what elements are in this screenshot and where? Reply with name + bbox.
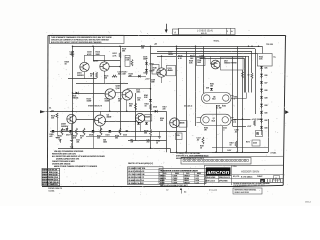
svg-text:C123: C123 [253,143,257,145]
title block fields row2 scale [218,176,220,183]
svg-text:R165: R165 [222,106,226,108]
svg-text:MAKE OTHER CHANGE SCHEMATIC TO: MAKE OTHER CHANGE SCHEMATIC TO BOARDS [54,165,98,168]
svg-text:150W: 150W [87,101,92,103]
svg-text:40409: 40409 [107,117,112,119]
svg-text:D110: D110 [153,107,157,109]
svg-text:Z-12: Z-12 [196,182,199,184]
svg-text:NEW: NEW [197,173,201,175]
svg-text:C1027: C1027 [173,180,178,182]
wire output stage links [231,98,247,100]
svg-text:D-14: D-14 [196,180,200,182]
svg-text:Q103: Q103 [94,61,99,63]
ground input [57,118,59,137]
diode string D125 [261,66,263,135]
svg-text:1N914: 1N914 [184,180,189,182]
svg-text:L-O-BUS (5)-A): L-O-BUS (5)-A) [197,30,213,33]
svg-text:390: 390 [129,106,132,108]
diode D117 [69,130,72,133]
svg-text:A4: A4 [184,191,186,194]
predriver column diodes [210,88,213,91]
resistor R151 [135,103,137,110]
wire vertical x=166.3 [166,111,168,152]
diode D119 [92,130,95,133]
svg-text:2: 2 [227,31,228,33]
wire vertical x=232.5 [232,57,234,127]
svg-text:D33: D33 [265,128,268,130]
svg-text:2N3391: 2N3391 [61,126,68,128]
svg-text:C9 .56MFD 100V 10%: C9 .56MFD 100V 10% [128,168,145,170]
junction dots bottom row [92,131,94,133]
transistor diode conversion chart [159,169,206,184]
diode D103 on feed [76,92,79,95]
svg-text:D4 1N4004 1A 400V: D4 1N4004 1A 400V [128,182,144,185]
wire y=147.5 right [212,147,268,149]
title block outline [204,164,283,166]
revision strip [179,28,236,34]
transistor Q103 [100,62,109,71]
svg-text:40410: 40410 [160,182,165,184]
svg-text:150W: 150W [105,101,110,103]
svg-text:TITLE: TITLE [233,166,237,168]
svg-text:DWN PJH 6-73: DWN PJH 6-73 [219,177,230,179]
svg-text:20W: 20W [151,82,155,84]
svg-text:B 170 1406-5: B 170 1406-5 [241,177,252,179]
svg-text:60-8: 60-8 [212,120,215,122]
wire y=83.5 [76,83,128,85]
stamp box reprint [233,188,262,194]
svg-text:40409: 40409 [168,70,173,72]
svg-text:A: A [174,30,176,34]
svg-text:SHUNT SELECTS: SHUNT SELECTS [88,106,103,108]
revision boxes row [260,179,265,183]
svg-text:0.1 5W: 0.1 5W [216,108,222,110]
relay K101 box [167,65,176,76]
svg-text:C1: C1 [49,108,51,110]
transistor Q113 predriver [135,113,144,122]
wire output y=126 [233,126,247,128]
svg-text:TO1 D30: TO1 D30 [266,44,273,46]
svg-text:1W: 1W [131,142,134,144]
wire vertical x=120 [120,46,122,131]
revision marker arrow [166,24,168,30]
wire vertical x=222 [222,126,224,152]
resistor R145 [83,128,85,135]
svg-text:D+: D+ [274,57,276,59]
capacitor C109 [71,124,73,132]
wire first stage emitter y=60 [93,60,120,62]
svg-text:D33: D33 [256,132,259,134]
svg-text:6-13-73: 6-13-73 [201,33,207,35]
wire vertical x=237 [237,46,239,152]
wire bus drop x=248.8 [248,56,250,92]
box Q113 spec [145,115,152,122]
ground symbol mid [159,131,161,136]
transistor Q109 input [67,114,76,123]
diode D125 in string [260,66,263,69]
svg-text:40409: 40409 [145,116,150,118]
wire vertical x=176.5 [176,46,178,152]
wire Q111 collector [161,56,163,68]
svg-text:D26: D26 [265,75,268,77]
resistor R101 input shunt [56,113,58,118]
wire vertical feed x=72.5 [72,46,74,148]
svg-text:D27: D27 [265,83,268,85]
svg-text:.047 2.2M: .047 2.2M [118,74,126,76]
svg-text:10: 10 [248,75,250,77]
svg-text:.1: .1 [223,130,224,132]
diode D105 [145,62,148,65]
svg-text:TRANSISTOR & DIODE CONVERSION: TRANSISTOR & DIODE CONVERSION CHART [160,169,199,172]
svg-text:10: 10 [200,148,202,150]
component box C115 [176,133,183,140]
svg-text:45.5 (45.1): 45.5 (45.1) [184,106,193,108]
parts table left [42,168,60,185]
svg-text:150: 150 [104,78,107,80]
wire vertical x=203 [203,46,205,93]
resistor R111 [131,60,133,67]
wire output y=119 [233,119,251,121]
svg-text:10: 10 [156,143,158,145]
svg-text:P-3-A R: P-3-A R [209,189,217,192]
svg-text:60-8: 60-8 [212,99,215,101]
svg-text:560: 560 [144,133,147,135]
wire stub x=93 bottom [93,131,95,148]
relay box K1 [197,58,206,66]
wire diode pair [146,60,148,75]
wire strip top line [181,156,283,157]
wire vertical x=186 [186,51,188,152]
svg-text:D101: D101 [144,73,148,75]
svg-text:R3 4.7K 1/2W 5% CF: R3 4.7K 1/2W 5% CF [128,171,144,173]
svg-text:+15V: +15V [145,79,150,81]
svg-text:2N3055 THERM: 2N3055 THERM [224,63,237,65]
output device Q121 stadium [201,114,232,125]
bottom right box [252,140,260,146]
diode D141 in string [260,126,263,129]
svg-text:100P: 100P [197,62,201,64]
svg-text:10: 10 [230,145,232,147]
resistor R167b [235,141,237,147]
wire Q107 collector to x150 [127,88,151,90]
svg-text:40409: 40409 [160,180,165,182]
diode D115 [52,130,55,133]
svg-text:R140: R140 [153,68,157,70]
svg-text:D-150A: D-150A [49,189,56,192]
svg-text:PARTS LIST # A-D-(436)-Q-Q: PARTS LIST # A-D-(436)-Q-Q [128,162,154,165]
wire Q113 tie [140,123,142,132]
wire bottom rail y=148.3 [58,148,170,150]
svg-text:D117: D117 [66,135,70,137]
resistor R141 [61,128,63,135]
svg-text:TO D.C.: TO D.C. [214,41,220,43]
svg-text:R171: R171 [246,142,250,144]
svg-text:220: 220 [160,120,163,122]
svg-text:amcron: amcron [207,170,230,176]
wire Q105-Q107 bases [115,92,122,94]
svg-text:ADDER SKIN: ADDER SKIN [241,170,259,174]
wire vertical x=216 [216,105,218,152]
wire bus drop x=245.7 [245,56,247,92]
resistor R151 [242,72,244,79]
svg-text:NEW: NEW [175,173,179,175]
wire bus line 2 [177,48,256,50]
svg-text:1N4004: 1N4004 [72,98,78,100]
resistor R167 [202,137,204,144]
svg-text:d150a-2: d150a-2 [305,202,311,204]
junction dots mid [72,111,74,113]
diode D110 [155,110,158,113]
ground bottom left [60,139,62,143]
resistor R149 [119,128,121,135]
transistor Q111 driver [157,68,166,77]
wire row y=140.8 [128,140,166,142]
svg-text:C109: C109 [197,60,201,62]
wire bus line 5 [157,56,249,58]
wire bus drop x=255 [255,49,257,114]
wire bottom rail y=152.2 [170,148,172,152]
svg-text:60-8 OUT PAIR PR1: 60-8 OUT PAIR PR1 [42,183,57,186]
wire y=136.9 [86,136,160,138]
svg-text:2N3391: 2N3391 [77,75,84,77]
svg-text:.05: .05 [235,132,237,134]
svg-text:D31: D31 [265,113,268,115]
pot box R140 [152,65,159,75]
svg-text:-V RAIL: -V RAIL [270,151,276,154]
diode D127 in string [260,74,263,77]
wire bias box feed [210,63,218,65]
wire base line y=66.5 [109,66,120,68]
wire Q110 emitter [100,126,102,131]
svg-text:D29: D29 [265,98,268,100]
diode D129 in string [260,81,263,84]
amcron logo [206,167,231,175]
wire y=119.5 [77,119,96,121]
diode D101 [138,75,141,78]
wire bus line 3 [157,51,252,53]
svg-text:1W: 1W [204,130,207,132]
revision block A [173,29,179,35]
svg-text:C115: C115 [176,135,180,137]
resistor R117 pullup [119,52,121,58]
svg-text:1400: 1400 [103,142,107,144]
diode D109 [67,126,69,128]
thermal box D33 [256,131,263,137]
wire vertical x=242.5 [242,70,244,152]
transistor Q115 [170,118,180,128]
svg-text:100: 100 [210,86,213,88]
svg-text:D121: D121 [106,135,110,137]
diode D111 [137,122,140,125]
svg-text:220: 220 [163,109,166,111]
wire Q101-Q103 coupling [84,55,86,62]
wire y=121.5 segment [104,121,136,123]
diode D139 in string [260,119,263,122]
wire bottom component row y=131.3 [50,131,186,133]
resistor R153 [251,73,253,79]
arrow marker right border [285,110,289,114]
svg-text:C1028: C1028 [173,182,178,184]
wire bus line 4 [151,53,258,55]
wire Q110 collector [100,111,102,115]
svg-text:C25: C25 [256,134,259,136]
transistor Q117 bias sensor [211,60,220,69]
wire Q107 down [126,100,128,112]
wire bus drop x=244.7 [244,59,246,93]
pointer arrow bottom [181,190,183,194]
wire rail to zener box [262,46,264,53]
diode D113 [145,122,148,125]
oval stub wires [197,117,202,119]
capacitor C113 [126,130,129,132]
svg-text:1N4742: 1N4742 [184,182,190,184]
resistor R143 [76,128,78,135]
diode D133 in string [260,96,263,99]
diode D131 in string [260,89,263,92]
transistor Q107 [122,90,132,100]
resistor R153 [150,104,152,110]
svg-text:Q107: Q107 [116,88,121,90]
diode D137 in string [260,111,263,114]
resistor R139 [150,129,152,136]
svg-text:+45: +45 [154,44,157,46]
wire diode feed y=93 [73,93,105,95]
svg-text:BULLETIN FOR LATEST CIRCUIT RE: BULLETIN FOR LATEST CIRCUIT REVISIONS AN… [51,41,102,44]
resistor R125 feedback [112,75,117,77]
transistor Q105 [105,89,115,99]
svg-text:D19: D19 [206,88,209,90]
wire vertical x=195.5 [195,46,197,126]
svg-text:.0015: .0015 [136,92,140,94]
wire bus line 6 [200,58,245,60]
bias network box [221,57,244,70]
wire bottom right gnd rail [212,152,268,154]
svg-text:.001: .001 [137,100,140,102]
resistor R102 on +V feed [72,51,74,57]
wire y=78.7 [68,78,97,80]
svg-text:40636: 40636 [180,122,185,124]
svg-text:.05: .05 [197,140,200,142]
svg-text:.0033: .0033 [168,54,173,56]
wire Q103 emitter down [104,71,106,83]
wire vertical x=135.5 [135,93,137,141]
wire bus drop x=251.9 [251,51,253,73]
resistor R121 [96,72,98,78]
wire rail y=111.3 [50,111,166,113]
svg-text:.001: .001 [76,142,79,144]
diode D135 in string [260,104,263,107]
svg-text:D28: D28 [265,90,268,92]
svg-text:R155: R155 [234,97,238,99]
svg-text:390: 390 [115,138,118,140]
svg-text:D30: D30 [265,105,268,107]
general notes box [50,35,125,43]
diode D112 [149,99,152,102]
svg-text:D32: D32 [265,120,268,122]
resistor R147 [100,128,102,135]
resistor R173 [254,120,256,126]
output device Q119 stadium [202,93,232,104]
connector J102 terminal strip [181,158,251,165]
wire Q111 emitter [161,77,163,83]
junction dots rail2 [161,55,163,57]
wire vertical x=93 [93,46,95,61]
svg-text:NO, LTD: NO, LTD [233,176,240,178]
svg-text:C113: C113 [123,135,127,137]
svg-text:D119: D119 [89,135,93,137]
transistor Q110 [95,115,106,126]
svg-text:D25: D25 [265,68,268,70]
wire stub x=71 ground [71,143,73,146]
capacitor C101 input coupling [48,111,51,113]
ground at C109 [70,140,73,142]
wire vertical x=268 [268,119,270,152]
wire +V top rail [73,46,263,48]
diode D107 [145,69,148,72]
node box bias [125,55,130,66]
parts list table [128,167,164,185]
input jack arrow J101 [40,110,46,113]
zener box D123 [257,54,272,67]
diode D121 [108,130,111,133]
box Q115 spec [179,121,187,128]
transistor Q101 [80,62,89,71]
wire Q105 down [109,99,111,112]
wire vertical x=150.5 [150,46,152,129]
wire Q101 emitter down [84,72,86,79]
